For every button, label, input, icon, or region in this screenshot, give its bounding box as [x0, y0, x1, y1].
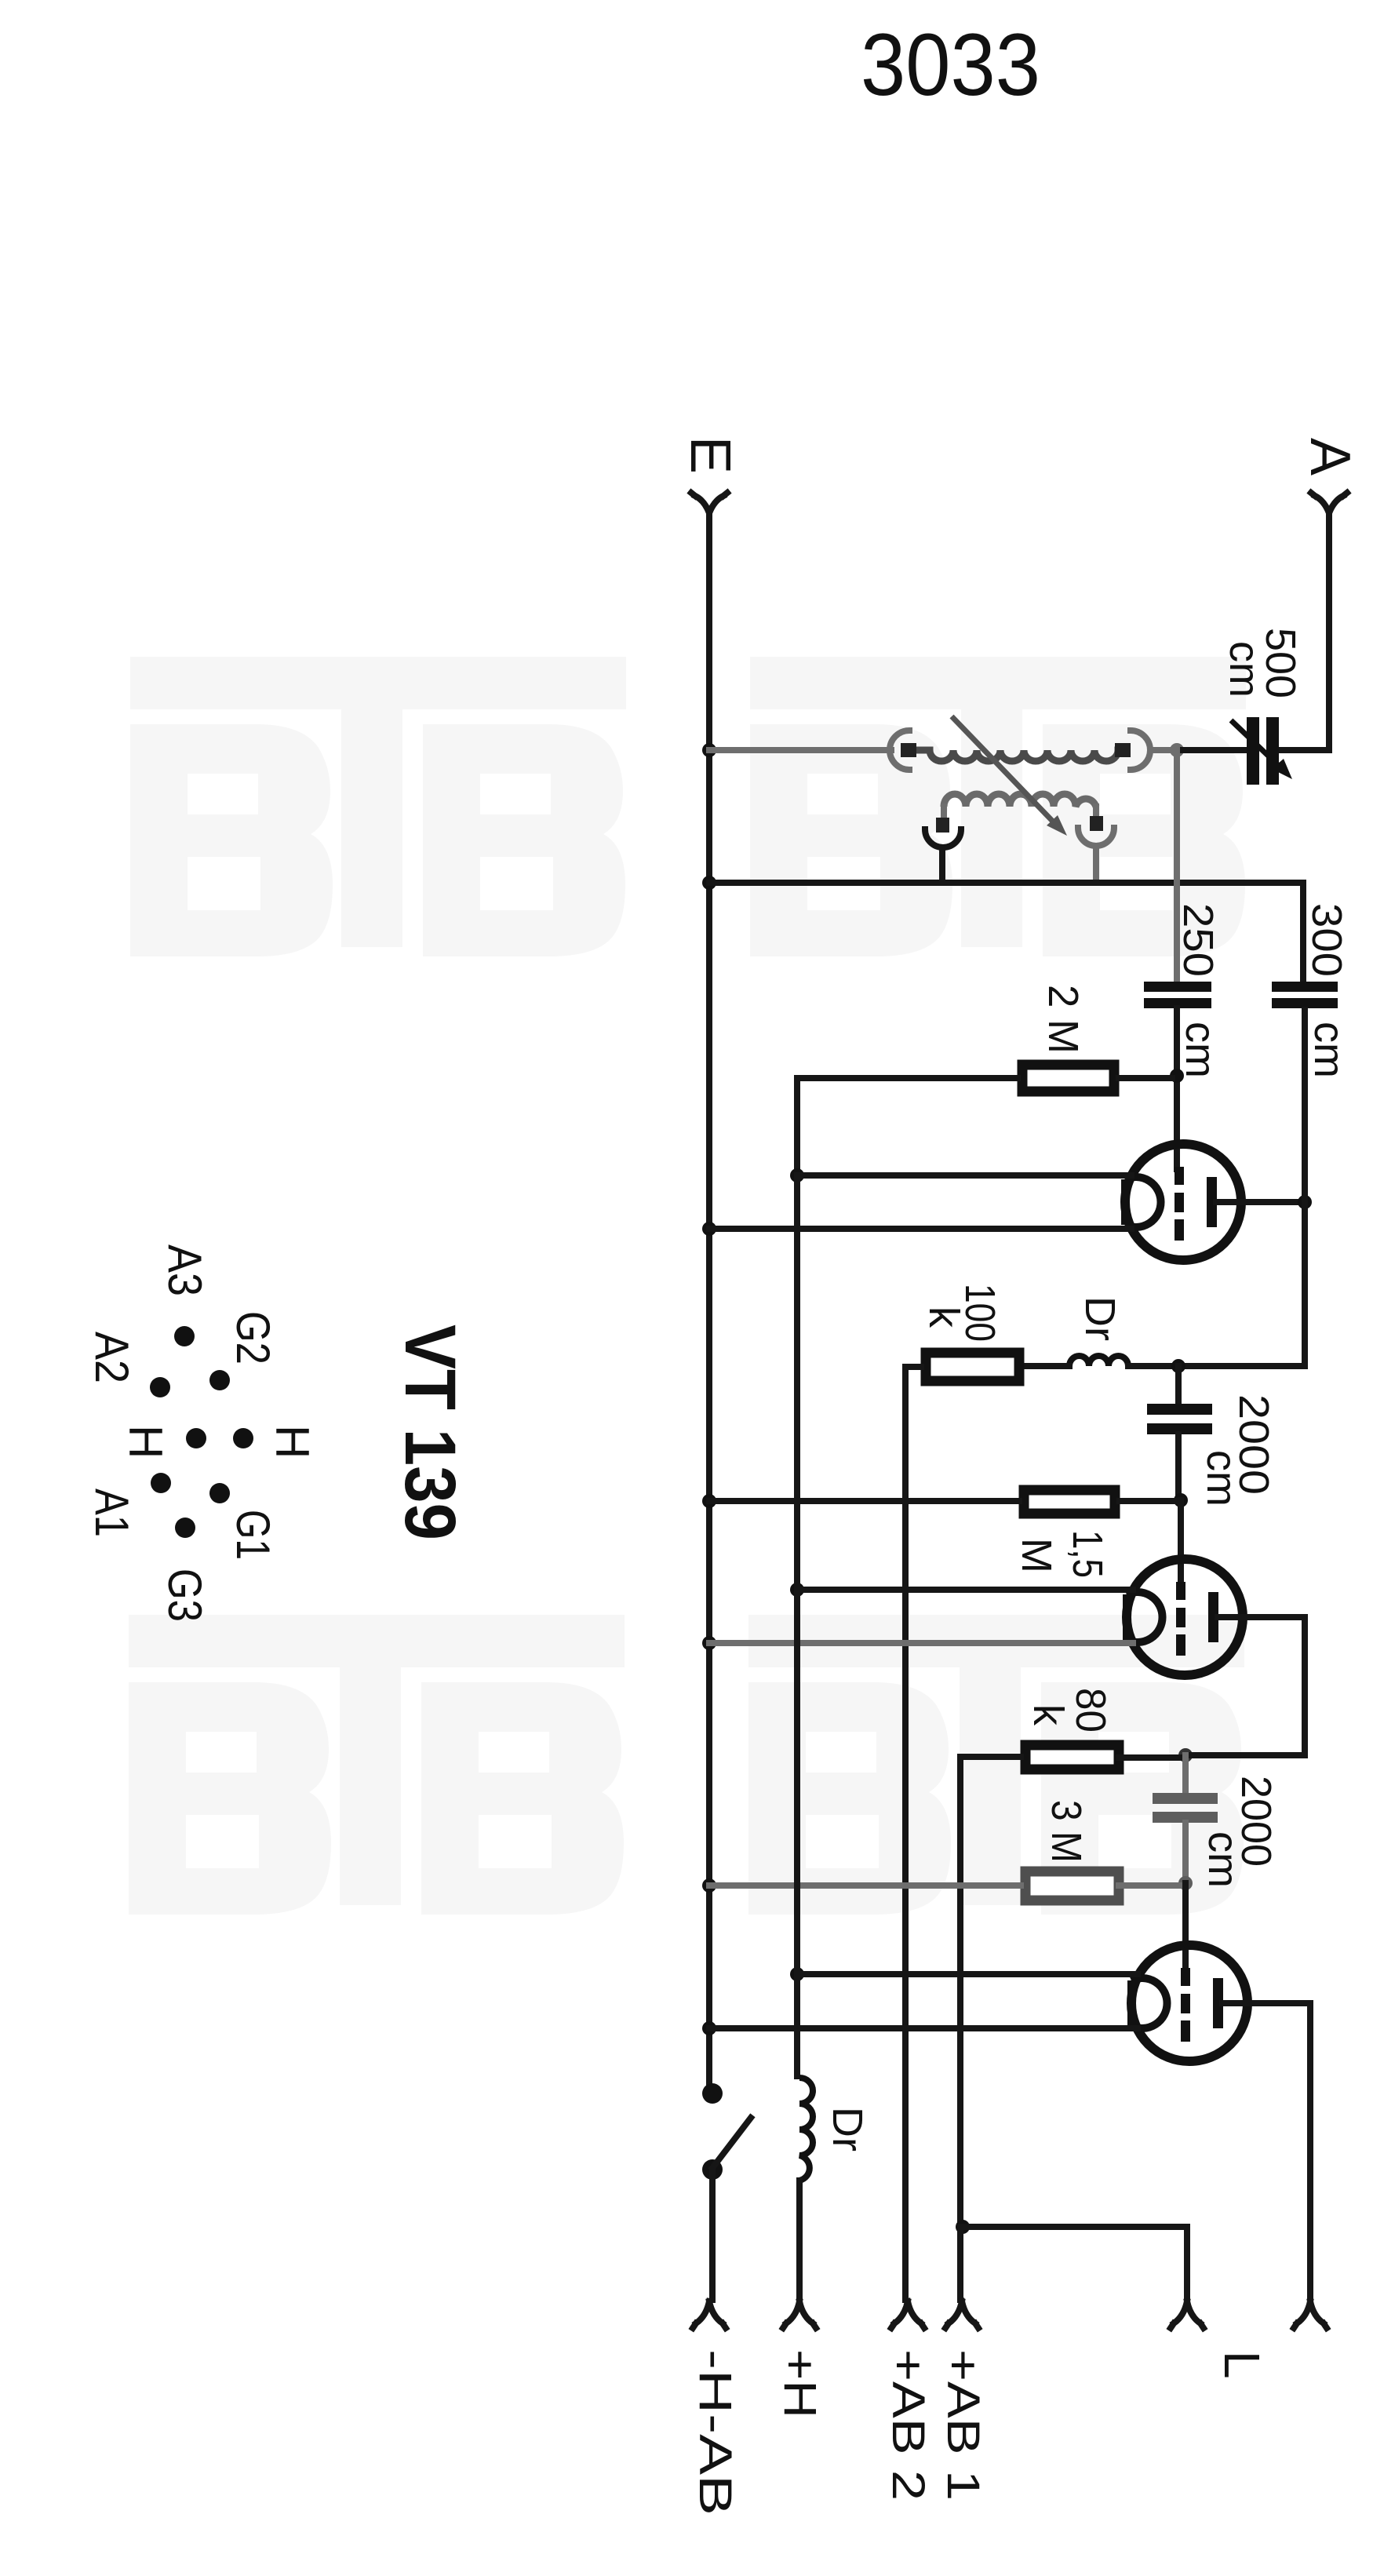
wire R5 right lead [1119, 1882, 1181, 1889]
wire E-bus to R5 [709, 1882, 1021, 1889]
terminal A fork [1311, 493, 1347, 513]
wire R3 right lead [1120, 1498, 1176, 1504]
svg-text:250: 250 [1175, 903, 1222, 977]
capacitor C1 500cm plate left [1247, 717, 1259, 785]
wire anode node down to choke line [1185, 1010, 1305, 1366]
node J13 80k junction [1178, 1748, 1193, 1762]
socket pin A1 [151, 1473, 171, 1493]
svg-text:L: L [1214, 2351, 1270, 2379]
wire J18 to loudspeaker terminal [963, 2227, 1187, 2300]
svg-text:cm: cm [1306, 1022, 1353, 1078]
coil L2 right plug [1090, 816, 1103, 831]
node J7 anode tube1 [1298, 1195, 1312, 1209]
variometer arrow [952, 716, 1054, 823]
wire E bus [706, 514, 712, 2092]
wire C2 to grid node J4 [1174, 1008, 1180, 1169]
wire E-bus to tube V3 filament [709, 2025, 1138, 2031]
svg-text:Dr: Dr [824, 2107, 871, 2152]
wire E-bus to R3 [709, 1498, 1019, 1504]
svg-text:2 M: 2 M [1040, 985, 1087, 1054]
resistor R4 80k body [1025, 1745, 1119, 1769]
socket pin A2 [150, 1377, 170, 1397]
coil L1 right clip [1131, 731, 1150, 770]
svg-text:VT 139: VT 139 [390, 1324, 470, 1540]
node J8 choke junction [1171, 1359, 1185, 1373]
resistor R1 2M body [1022, 1065, 1114, 1091]
svg-text:+H: +H [774, 2349, 825, 2418]
wire J9 down to tube V2 [1178, 1500, 1184, 1585]
socket pin G2 [209, 1370, 230, 1390]
wire J13 to anode corner [1185, 1752, 1305, 1758]
resistor R5 3M body [1025, 1871, 1119, 1900]
node J11 filament+ rail tube2 [790, 1583, 804, 1597]
node J17 E-bus filament tube3 [702, 2021, 716, 2035]
svg-text:+AB 2: +AB 2 [883, 2349, 934, 2501]
coil L2 right stem [1093, 846, 1099, 883]
node J2 coil-cap junction [1170, 743, 1184, 757]
svg-text:300: 300 [1303, 903, 1350, 977]
terminal T2 fork [783, 2301, 816, 2328]
svg-text:M: M [1013, 1538, 1060, 1573]
capacitor C5 2000cm bottom plate [1153, 1812, 1218, 1823]
choke Dr1 winding [1069, 1356, 1128, 1366]
svg-text:3 M: 3 M [1043, 1800, 1090, 1863]
capacitor C3 300cm top plate [1272, 982, 1338, 992]
node J1 E-bus top [702, 743, 716, 757]
socket pin H right [233, 1428, 253, 1448]
wire R1 left lead to H+ rail [797, 1078, 1018, 1169]
switch S1 blade [712, 2118, 751, 2168]
tube V3 [1131, 1945, 1247, 2061]
svg-text:3033: 3033 [861, 16, 1040, 114]
svg-text:A: A [1298, 438, 1361, 475]
tube V1 [1125, 1144, 1241, 1260]
wire R4 right lead [1119, 1754, 1181, 1761]
socket pin G1 [209, 1483, 230, 1503]
coil L1 left plug [901, 743, 916, 757]
coil L1 left clip [890, 731, 909, 770]
coil L2 left plug [936, 818, 949, 833]
wire J2 to tuning capacitor [1177, 747, 1245, 753]
wire J2 down to grid capacitor [1174, 750, 1180, 980]
watermark BTB bottom-right [748, 1615, 1244, 1915]
capacitor C4 2000cm top plate [1147, 1404, 1212, 1415]
wire R4 left lead to AB1 rail [960, 1757, 1021, 2227]
coil L2 winding [944, 794, 1096, 807]
wire filament+ rail to tube V2 [797, 1587, 1133, 1593]
wire coil return bus [709, 883, 1303, 980]
svg-text:G1: G1 [227, 1510, 279, 1560]
wire filament+ to tube V1 [797, 1172, 1131, 1179]
svg-text:G2: G2 [227, 1311, 279, 1365]
capacitor C4 stem bottom [1175, 1434, 1182, 1500]
tube V2 [1127, 1559, 1243, 1675]
svg-text:A2: A2 [86, 1332, 138, 1383]
resistor R2 100k body [926, 1353, 1019, 1381]
terminal T3 fork [891, 2301, 924, 2328]
wire A lead down to tuning capacitor [1280, 514, 1329, 750]
wire choke Dr2 to terminal [796, 2181, 803, 2300]
capacitor C2 250cm bottom plate [1144, 998, 1211, 1008]
wire AB1 rail lower [957, 2227, 963, 2300]
switch S1 bottom contact [702, 2159, 723, 2180]
svg-text:G3: G3 [158, 1569, 211, 1622]
capacitor C2 250cm top plate [1144, 982, 1211, 992]
switch S1 top contact [702, 2083, 723, 2104]
terminal T6 fork [1294, 2301, 1327, 2328]
node J9 grid tube2 [1174, 1493, 1188, 1507]
node J10 E-bus grid leak [702, 1494, 716, 1508]
svg-text:k: k [1025, 1704, 1072, 1726]
wire V2 anode right [1218, 1617, 1305, 1755]
coil L2 right drop [1093, 807, 1099, 816]
coil L2 left drop [941, 807, 947, 818]
terminal E fork [691, 493, 727, 513]
wire V1 anode to feedback node [1216, 1199, 1305, 1205]
coil L2 left stem [939, 847, 945, 883]
wire J14 down to tube V3 [1182, 1883, 1189, 1971]
svg-text:E: E [679, 436, 741, 474]
wire E-bus to tube V2 filament [709, 1640, 1133, 1646]
svg-text:A3: A3 [158, 1244, 211, 1296]
terminal T1 fork [693, 2301, 726, 2328]
svg-text:1,5: 1,5 [1064, 1530, 1111, 1578]
node J5 filament+ rail tube1 [790, 1168, 804, 1182]
coil L1 right plug [1115, 743, 1131, 757]
rail H+ vertical [794, 1175, 800, 2076]
resistor R3 1,5M body [1024, 1490, 1115, 1514]
coil L1 winding [916, 750, 1130, 761]
capacitor C5 stem bottom [1182, 1823, 1189, 1883]
node J18 AB1 junction [956, 2220, 970, 2234]
socket pin A3 [174, 1326, 195, 1346]
wire clip to node J2 [1150, 747, 1177, 753]
svg-text:H: H [266, 1425, 319, 1459]
capacitor C5 2000cm stem [1182, 1755, 1189, 1791]
wire V3 anode to L terminal rail [1222, 2003, 1310, 2300]
wire R2 left lead to AB2 rail [905, 1367, 921, 2300]
wire choke to junction [1128, 1363, 1177, 1369]
node J16 filament+ rail tube3 [790, 1967, 804, 1981]
svg-text:80: 80 [1067, 1688, 1114, 1733]
svg-text:k: k [920, 1306, 967, 1328]
choke Dr2 winding [799, 2078, 813, 2181]
capacitor C1 arrow [1231, 720, 1280, 767]
svg-text:Dr: Dr [1076, 1296, 1124, 1341]
capacitor C4 2000cm stem top [1175, 1366, 1182, 1402]
svg-text:cm: cm [1177, 1022, 1224, 1078]
svg-text:H: H [119, 1425, 172, 1459]
capacitor C5 2000cm top plate [1153, 1793, 1218, 1804]
svg-text:cm: cm [1200, 1831, 1247, 1888]
capacitor C3 300cm bottom plate [1272, 998, 1338, 1008]
terminal T5 fork [1171, 2301, 1204, 2328]
wire R1 right lead [1119, 1075, 1172, 1081]
node J4 grid tube1 [1170, 1069, 1184, 1083]
watermark BTB top-right [750, 657, 1246, 956]
node J3 E-bus coil return [702, 876, 716, 890]
node J15 E-bus 3M [702, 1878, 716, 1893]
node J6 E-bus filament tube1 [702, 1222, 716, 1236]
coil L2 left cup [925, 829, 961, 847]
watermark BTB bottom-left [129, 1615, 625, 1915]
node J12 E-bus filament tube2 [702, 1636, 716, 1650]
coil L2 right cup [1078, 828, 1114, 846]
node J14 grid tube3 [1178, 1876, 1193, 1890]
watermark BTB top-left [130, 657, 626, 956]
svg-text:cm: cm [1221, 641, 1268, 698]
capacitor C4 2000cm bottom plate [1147, 1423, 1212, 1434]
wire E-bus to coil left clip [709, 747, 891, 753]
svg-text:-H-AB: -H-AB [690, 2349, 741, 2516]
svg-text:+AB 1: +AB 1 [938, 2349, 989, 2501]
socket pin G3 [175, 1518, 195, 1538]
svg-text:A1: A1 [86, 1488, 138, 1537]
capacitor C1 500cm plate right [1266, 717, 1279, 785]
terminal T4 fork [945, 2301, 978, 2328]
svg-text:cm: cm [1198, 1450, 1245, 1507]
socket pin H left [186, 1428, 206, 1448]
wire choke to 100k [1024, 1363, 1069, 1369]
wire E-bus to tube V1 filament [709, 1226, 1131, 1232]
wire switch to terminal [709, 2170, 716, 2300]
wire filament+ rail to tube V3 [797, 1971, 1138, 1977]
